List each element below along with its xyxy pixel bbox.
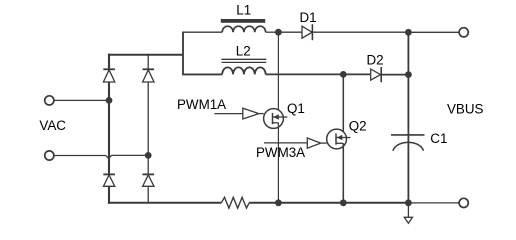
wire buffer to Q1 gate — [259, 113, 264, 115]
junction dot VAC top / left leg — [106, 97, 113, 104]
mosfet Q2 — [327, 78, 351, 203]
mosfet Q1 — [264, 35, 288, 203]
capacitor C1 top plate — [391, 134, 425, 136]
junction node B (L2/Q2/D2) — [340, 71, 347, 78]
wire output column (VOUT node down through C1 to rail) — [407, 32, 409, 203]
wire node A to D1 — [278, 31, 302, 33]
wire D2 to output column — [381, 74, 408, 76]
inductor L1 core bar — [221, 19, 265, 23]
svg-text:D1: D1 — [300, 10, 317, 25]
inductor L2 core bars — [222, 59, 267, 62]
terminal VAC top — [45, 96, 54, 105]
terminal VBUS bottom — [459, 198, 468, 207]
svg-text:L2: L2 — [236, 43, 251, 58]
resistor (current sense) — [221, 197, 249, 208]
svg-text:Q1: Q1 — [287, 101, 305, 116]
bridge diode right-bottom — [143, 174, 155, 186]
bridge top rail to inductor bus — [108, 54, 183, 56]
junction dot Q2 source / rail — [340, 199, 347, 206]
wire VAC top to bridge — [54, 99, 109, 101]
inductor L2 winding — [222, 67, 265, 74]
svg-text:PWM3A: PWM3A — [256, 145, 305, 160]
svg-text:L1: L1 — [236, 3, 251, 18]
diode D2 — [371, 67, 382, 82]
wire L2 to node B — [266, 73, 344, 75]
bridge diode left-bottom — [103, 174, 115, 186]
junction dot Q1 source / rail — [275, 199, 282, 206]
inductor L1 winding — [222, 26, 265, 32]
wire L1 to node A — [266, 31, 279, 33]
junction node A (L1/Q1/D1) — [275, 29, 282, 36]
bridge diode left-top — [103, 69, 115, 82]
bridge left leg upper wire — [108, 54, 110, 204]
svg-text:C1: C1 — [430, 131, 447, 146]
wire bus to L2 — [182, 73, 222, 75]
junction dot C1 / rail / ground — [405, 199, 412, 206]
wire bus to L1 — [182, 31, 222, 33]
ground stub — [407, 203, 409, 218]
bottom rail right — [249, 202, 408, 204]
buffer driver for Q1 — [243, 108, 259, 119]
svg-text:D2: D2 — [367, 53, 384, 68]
svg-text:VBUS: VBUS — [447, 102, 484, 117]
wire PWM3A to buffer — [264, 142, 307, 144]
junction dot VOUT top — [405, 29, 412, 36]
inductor input bus vertical — [182, 32, 184, 75]
junction dot D2 cathode / output column — [405, 71, 412, 78]
terminal VBUS top — [459, 28, 468, 37]
terminal VAC bottom — [45, 151, 54, 160]
svg-text:VAC: VAC — [39, 118, 66, 133]
wire to VBUS terminal — [408, 31, 459, 33]
bottom rail left — [108, 202, 221, 204]
bridge right leg wires — [147, 55, 149, 202]
wire D1 to node VOUT top — [312, 31, 408, 33]
svg-text:PWM1A: PWM1A — [177, 97, 226, 112]
wire hop at left leg crossing — [106, 155, 149, 158]
wire VAC bottom to bridge right leg — [54, 155, 106, 157]
wire buffer to Q2 gate — [321, 142, 327, 144]
wire PWM1A to buffer — [214, 113, 242, 115]
bridge diode right-top — [143, 69, 155, 82]
junction dot VAC bottom / right leg — [145, 152, 152, 159]
buffer driver for Q2 — [307, 138, 320, 148]
svg-text:Q2: Q2 — [349, 118, 367, 133]
ground symbol — [404, 217, 412, 223]
diode D1 — [302, 24, 312, 40]
wire node B to D2 — [343, 73, 370, 75]
wire rail to VBUS return terminal — [408, 202, 459, 204]
capacitor C1 curved plate — [393, 142, 424, 150]
